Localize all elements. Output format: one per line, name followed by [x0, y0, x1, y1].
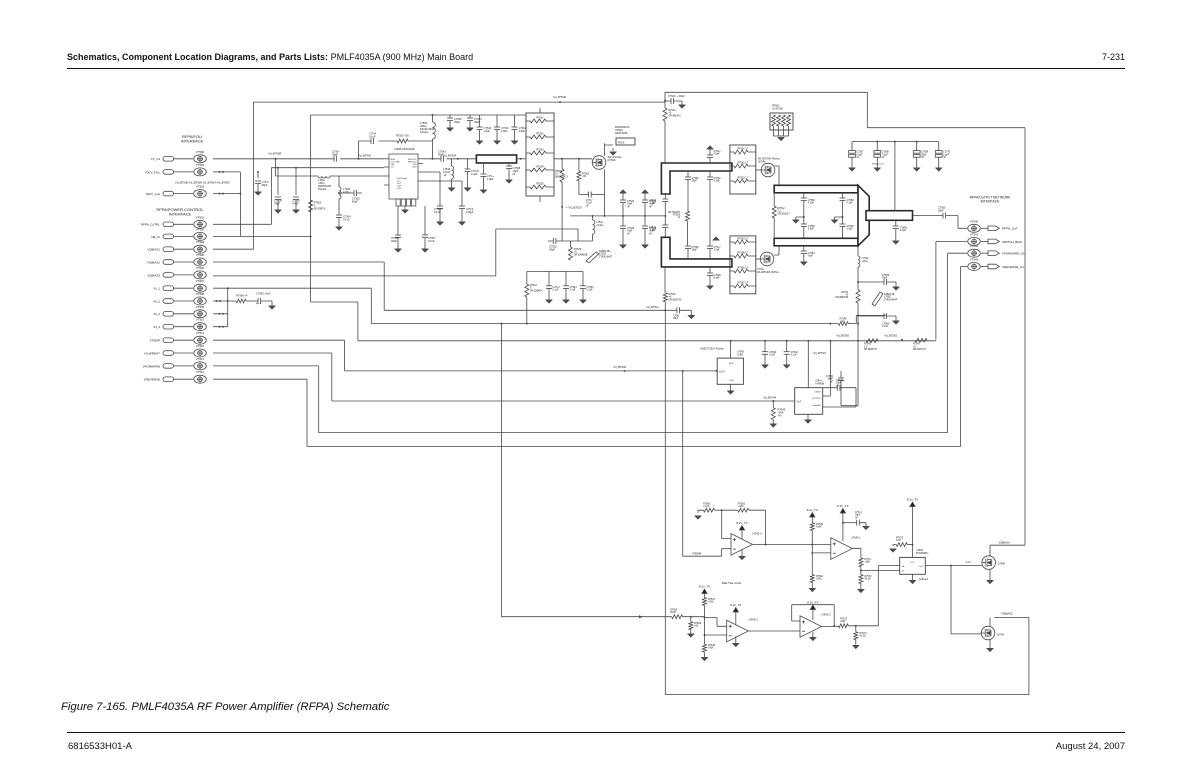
wire VG1 feed	[423, 172, 440, 206]
footer part number	[68, 741, 132, 752]
wire	[664, 194, 666, 237]
svg-text:TX_inJ: TX_inJ	[151, 157, 161, 161]
wire VG2 feed	[423, 181, 462, 206]
resistor network RT501-RT505 box	[526, 113, 554, 196]
wire Q7530 source to output line	[604, 169, 606, 216]
label U7543-c	[851, 535, 861, 539]
wire	[582, 288, 584, 300]
capacitor C7548	[707, 273, 713, 276]
net label Vd_B7504	[443, 153, 457, 157]
feedthrough VT500 (TX_inJ)	[163, 155, 206, 163]
svg-text:nF: nF	[586, 204, 589, 207]
label C7541	[714, 150, 722, 156]
svg-text:RT505: RT505	[536, 183, 544, 186]
junction	[561, 206, 563, 208]
label C7552	[808, 225, 816, 231]
svg-text:VT543: VT543	[970, 258, 979, 262]
label AnB	[919, 578, 929, 581]
net label Vd_B7582	[836, 333, 850, 337]
resistor RT562	[734, 164, 748, 168]
junction	[222, 313, 224, 315]
wire IN_1 sense line	[213, 288, 886, 323]
ground R7570	[890, 549, 896, 552]
capacitor C7503	[354, 190, 357, 196]
junction	[219, 193, 221, 195]
wire	[622, 216, 624, 226]
wire IN_3	[213, 313, 228, 315]
interface label RFPA/OUTPUT NETWORK	[970, 195, 1011, 203]
microstrip combiner output stub	[866, 211, 913, 221]
svg-text:0.1uF: 0.1uF	[428, 239, 435, 243]
svg-text:+00K: +00K	[816, 526, 822, 529]
feedthrough VT543 (VREVERSE_On)	[968, 263, 1000, 271]
ground C7543	[467, 128, 473, 131]
label RT567	[738, 283, 749, 285]
wire	[860, 570, 862, 574]
ground C7510	[512, 141, 518, 144]
label C7518	[434, 207, 442, 214]
junction	[803, 216, 805, 218]
junction	[222, 326, 224, 328]
wire NE/V_LoA	[213, 193, 240, 195]
resistor RT563	[734, 179, 748, 183]
resistor R7549	[772, 206, 776, 218]
svg-text:+2Km: +2Km	[862, 260, 869, 263]
svg-text:nF: nF	[627, 205, 630, 208]
wire	[822, 625, 839, 627]
feedthrough VT540 (RFPN_OuT)	[968, 224, 1000, 232]
svg-text:+3.9m: +3.9m	[596, 223, 603, 227]
label C7540	[668, 95, 685, 98]
feedthrough VT511 (VTEMP)	[163, 336, 206, 344]
ground C7524	[563, 300, 569, 303]
resistor R7547b	[915, 338, 927, 342]
resistor bank RT561-RT563 box	[730, 145, 756, 194]
svg-text:8.2v_TX: 8.2v_TX	[736, 521, 747, 525]
wire	[730, 285, 756, 287]
wire to inverting input	[722, 510, 731, 538]
svg-text:+50: +50	[582, 175, 587, 178]
svg-text:VT503: VT503	[196, 227, 205, 231]
ground U7542-d	[739, 557, 745, 560]
label R7526	[574, 248, 588, 256]
wire U7542-d output	[753, 544, 831, 546]
wire	[439, 209, 441, 222]
microstrip splitter upper arm W7541	[661, 163, 732, 194]
svg-text:VTEMP: VTEMP	[692, 552, 702, 556]
wire U7540 Vcc	[912, 511, 914, 558]
wire	[756, 169, 762, 171]
label Q7549	[757, 268, 779, 274]
label R7543	[816, 523, 824, 529]
label C7550	[808, 199, 816, 205]
wire VQBIAS2 riser upper	[664, 121, 666, 293]
svg-text:8.2v_TX: 8.2v_TX	[807, 508, 818, 512]
svg-text:VT505: VT505	[196, 253, 205, 257]
junction	[857, 281, 859, 283]
ground C7548	[707, 286, 713, 289]
wire Q7540 drain	[989, 545, 991, 556]
wire	[812, 632, 814, 637]
svg-text:RT502: RT502	[536, 133, 544, 136]
svg-text:VQBiAS2: VQBiAS2	[1001, 611, 1013, 615]
label C7546b	[692, 177, 700, 183]
microstrip combiner junction bar	[858, 185, 869, 246]
wire	[622, 203, 624, 216]
svg-text:+A: +A	[902, 565, 905, 568]
ground IN_2 filter	[269, 306, 275, 309]
junction	[239, 193, 241, 195]
wire	[709, 249, 711, 259]
wire	[842, 227, 844, 239]
svg-text:3.9pF: 3.9pF	[808, 228, 815, 231]
junction	[764, 340, 766, 342]
junction	[338, 192, 340, 194]
resistor RT503	[530, 151, 546, 155]
transistor Q7548 upper final	[761, 163, 775, 177]
resistor R7570	[896, 543, 907, 547]
label R7547b	[913, 343, 927, 351]
junction	[855, 625, 857, 627]
label R7562d	[738, 502, 746, 508]
wire	[855, 640, 857, 645]
label R7527	[530, 284, 543, 292]
transistor Q7541 bias FET	[981, 626, 995, 640]
inductor L7501	[318, 176, 330, 178]
label Q7540	[998, 562, 1006, 565]
feedthrough VT509 (IN_3)	[163, 310, 206, 318]
svg-text:u7542-2: u7542-2	[821, 612, 831, 616]
capacitor C7560	[943, 213, 946, 219]
svg-text:0R-30(5(2T: 0R-30(5(2T	[778, 212, 791, 215]
svg-text:39pF: 39pF	[274, 201, 280, 205]
IC U7545 LM50 block	[717, 358, 743, 384]
label C7519	[466, 207, 474, 214]
wire U7500 right pin	[418, 158, 423, 160]
capacitor C7547	[707, 246, 713, 249]
svg-text:+4.2K: +4.2K	[703, 505, 710, 508]
wire	[469, 115, 471, 118]
net labels Vd_B7500 row	[175, 180, 230, 184]
wire	[578, 159, 580, 171]
feedthrough VT542 (VFORWARD_On)	[968, 249, 1000, 257]
wire	[842, 193, 844, 198]
svg-text:IN_2: IN_2	[154, 299, 161, 303]
label C7525	[549, 244, 557, 251]
junction	[219, 300, 221, 302]
wire	[687, 221, 689, 246]
capacitor C7546f	[837, 385, 840, 391]
svg-text:u7543-3: u7543-3	[748, 617, 758, 621]
svg-text:VT540: VT540	[970, 219, 979, 223]
junction Vd_B7540	[559, 101, 561, 103]
svg-text:-A: -A	[902, 570, 905, 573]
wire	[527, 272, 553, 286]
svg-text:SWiTCH_BiAS: SWiTCH_BiAS	[1002, 240, 1022, 244]
junction	[786, 340, 788, 342]
capacitor C7552	[801, 224, 807, 227]
ground C7508	[275, 210, 281, 213]
label U7540	[916, 549, 929, 555]
svg-text:RT50+: RT50+	[536, 117, 544, 120]
label C7510	[519, 126, 527, 133]
svg-text:vOuT: vOuT	[719, 370, 725, 373]
label C7504	[343, 214, 351, 221]
svg-text:INTERFACE: INTERFACE	[169, 212, 192, 217]
net label Vd_B7508	[268, 151, 282, 155]
junction	[716, 370, 718, 372]
svg-text:POS: POS	[618, 140, 624, 144]
junction	[860, 569, 862, 571]
label U7541	[815, 379, 824, 385]
ground C7559/C7563	[832, 220, 838, 223]
wire	[858, 315, 884, 317]
svg-text:VCC: VCC	[910, 562, 915, 564]
power 8.2v_TX U7542-d	[739, 526, 744, 534]
svg-text:39pF: 39pF	[391, 239, 397, 243]
junction	[811, 544, 813, 546]
junction NE_IV at supply riser	[310, 235, 312, 237]
wire	[887, 316, 896, 321]
page number	[1100, 52, 1125, 62]
svg-text:INTERFACE: INTERFACE	[181, 139, 204, 144]
wire	[895, 229, 897, 241]
capacitor C7512	[494, 127, 500, 130]
svg-text:R7503 +50: R7503 +50	[396, 133, 409, 137]
wire	[842, 517, 844, 541]
wire	[690, 617, 692, 622]
net label Vd_B7521	[813, 351, 827, 355]
svg-text:RO1: RO1	[729, 363, 734, 365]
svg-text:VT514: VT514	[196, 370, 205, 374]
wire	[467, 159, 469, 169]
svg-text:nF: nF	[627, 232, 630, 235]
resistor RT562 element	[772, 115, 776, 126]
wire	[796, 201, 804, 220]
junction	[432, 114, 434, 116]
svg-text:VT513: VT513	[196, 357, 205, 361]
svg-text:0.4uF: 0.4uF	[292, 201, 299, 205]
junction	[592, 215, 594, 217]
label RT56+	[738, 149, 749, 151]
label C7505	[391, 236, 399, 243]
ground R7548	[702, 658, 708, 661]
wire	[461, 209, 463, 222]
junction	[912, 544, 914, 546]
svg-text:OuT: OuT	[919, 566, 924, 568]
resistor R7527	[525, 284, 529, 297]
inductor L7504	[433, 122, 436, 139]
wire	[803, 227, 805, 239]
wire	[709, 171, 711, 177]
junction	[644, 215, 646, 217]
wire	[778, 126, 780, 136]
wire U7543-c output	[852, 548, 861, 558]
wire filter spine	[841, 267, 858, 406]
wire VQBIAS1 top rail	[213, 92, 1025, 545]
wire	[548, 240, 570, 242]
ground U7545	[728, 391, 734, 394]
resistor RT564	[734, 240, 748, 244]
ground C7518	[437, 222, 443, 225]
wire	[907, 544, 912, 546]
wire	[709, 276, 711, 286]
resistor R7548	[703, 644, 707, 652]
wire VTEMP	[213, 340, 717, 371]
ground C7569	[914, 168, 920, 171]
svg-text:RT56+ 2.7: RT56+ 2.7	[738, 149, 749, 151]
label C7513	[262, 180, 270, 187]
ground C7541	[707, 146, 713, 149]
ground Q7540	[987, 581, 993, 584]
label C7524	[570, 286, 578, 292]
wire VQBIAS3 driver bias	[213, 229, 578, 276]
ground C7505	[395, 249, 401, 252]
svg-text:0R-30(A/B7: 0R-30(A/B7	[668, 211, 681, 214]
junction	[227, 287, 229, 289]
label bias text	[722, 581, 741, 585]
wire	[257, 172, 259, 178]
wire C7563 to ground	[261, 301, 272, 306]
wire	[644, 229, 646, 245]
svg-text:+00K: +00K	[840, 620, 846, 623]
resistor RT56+	[734, 150, 748, 154]
wire	[842, 217, 844, 224]
wire	[277, 200, 279, 210]
svg-text:1.8pF: 1.8pF	[501, 129, 508, 133]
wire	[449, 115, 451, 118]
feedthrough VT510 (IN_4)	[163, 323, 206, 331]
svg-text:+00K: +00K	[708, 647, 714, 650]
ground U7542-b	[810, 638, 816, 641]
ground C7567	[849, 168, 855, 171]
ground Q7541	[987, 649, 993, 652]
svg-text:Vd_B7544: Vd_B7544	[763, 396, 777, 400]
wire Q7548 drain	[775, 166, 780, 185]
svg-text:0R-305(A73: 0R-305(A73	[669, 298, 683, 301]
wire	[788, 126, 790, 136]
wire U7500 left pin	[384, 175, 389, 177]
ground C7512	[494, 141, 500, 144]
inductor L7543	[452, 166, 454, 179]
label R7573	[840, 617, 848, 623]
svg-text:VFORWARD_On: VFORWARD_On	[1002, 252, 1025, 256]
capacitor C7549 series	[662, 225, 668, 228]
wire to U7540 input	[848, 566, 899, 626]
svg-text:82pF: 82pF	[352, 199, 358, 203]
wire	[592, 216, 594, 220]
svg-text:2.2v: 2.2v	[966, 560, 972, 564]
svg-text:0.1uF: 0.1uF	[769, 354, 776, 357]
resistor RT50+	[530, 119, 546, 123]
label C7501	[332, 149, 340, 156]
label C7558	[882, 274, 890, 280]
inductor L7521	[593, 220, 595, 234]
wire	[895, 220, 897, 226]
wire to U7540	[861, 567, 900, 571]
wire	[715, 509, 722, 511]
wire U7500 left pin	[384, 184, 389, 186]
svg-text:nF: nF	[836, 384, 839, 387]
svg-text:VFORWARD: VFORWARD	[143, 364, 161, 368]
resistor R7504	[560, 169, 564, 182]
wire	[565, 272, 567, 286]
label L7542	[862, 257, 870, 263]
svg-text:Vd_B7521: Vd_B7521	[813, 351, 827, 355]
wire	[812, 531, 831, 553]
ground C7508b	[688, 316, 694, 319]
wire	[404, 206, 406, 210]
wire to RFPA_OuT	[946, 216, 967, 229]
junction	[219, 326, 221, 328]
capacitor C7546b	[685, 177, 691, 180]
capacitor C7541	[707, 155, 713, 158]
wire	[257, 184, 259, 192]
resistor R7571	[859, 558, 863, 567]
label RT562	[738, 163, 749, 165]
wire	[526, 136, 554, 138]
ground C7513	[255, 192, 261, 195]
svg-text:u7543-c: u7543-c	[851, 535, 861, 539]
ground C7542c	[784, 365, 790, 368]
label U7543-d	[748, 617, 758, 621]
wire	[764, 354, 766, 365]
feedthrough VT502 (RFPA_CnTRL)	[163, 220, 206, 228]
ground R7574	[853, 646, 859, 649]
ground C7528	[620, 245, 626, 248]
IC U7541 current sense block	[795, 388, 823, 415]
wire	[730, 384, 732, 391]
feedthrough VT506 (VQBiAS3)	[163, 271, 206, 279]
wire	[338, 176, 340, 187]
wire	[938, 157, 940, 168]
resistor R7503	[397, 139, 408, 143]
junction VTEMP tap	[682, 370, 684, 372]
label C7547	[714, 246, 722, 252]
capacitor C7513	[255, 181, 261, 184]
capacitor C7518	[437, 206, 443, 209]
junction	[500, 323, 502, 325]
inductor L7982 (tunable)	[872, 292, 883, 306]
junction	[704, 617, 706, 619]
label C7569	[921, 151, 929, 159]
svg-text:+0K: +0K	[694, 625, 699, 628]
label R7548	[708, 644, 716, 650]
svg-text:8.2v_TX: 8.2v_TX	[907, 498, 918, 502]
svg-text:+: +	[256, 302, 258, 306]
wire	[526, 297, 528, 324]
ground C7507	[422, 249, 428, 252]
label C7543	[474, 117, 482, 124]
wire	[772, 420, 774, 424]
label R7572	[865, 575, 873, 581]
net label Vd_B7562	[884, 333, 898, 337]
label U7542-b	[821, 612, 831, 616]
capacitor C7529	[642, 226, 648, 229]
svg-text:8.2v_TX: 8.2v_TX	[699, 585, 710, 589]
svg-text:RT562 2.7: RT562 2.7	[738, 163, 749, 165]
wire driver output node	[570, 215, 665, 217]
wire drain feed to output stub	[894, 142, 896, 211]
footer rule	[67, 732, 1125, 733]
svg-text:PCN50#Px: PCN50#Px	[916, 552, 929, 555]
label heatsink	[615, 125, 630, 135]
label C7560	[938, 206, 946, 212]
capacitor C7507	[422, 235, 428, 238]
wire	[295, 168, 297, 195]
microstrip combiner top arm	[774, 185, 858, 193]
wire C7524/C7523 feed	[553, 271, 583, 273]
